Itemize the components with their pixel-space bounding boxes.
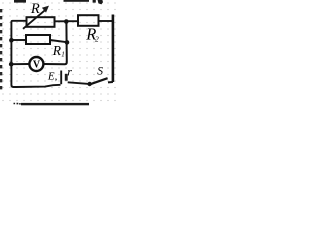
switch blade [90,78,108,84]
wire: left rail to R1 [11,39,26,41]
wire: right rail [112,15,115,83]
svg-text:S: S [97,65,103,77]
junction dot at vertical branch [65,40,70,45]
wire: battery to switch [68,82,89,84]
svg-text:E,: E, [47,71,58,83]
svg-text:V: V [33,60,41,71]
wire: R2 to right rail [99,20,113,22]
battery long plate [60,71,62,85]
wire: rheostat to node A [55,20,67,22]
svg-text:2: 2 [95,34,99,43]
cropped text bar top-left [14,0,26,3]
node A junction dot [64,19,69,24]
cropped text bar top-middle [64,0,90,2]
resistor R2 box (top right) [78,15,99,26]
rheostat arrowhead [42,6,49,13]
svg-text:r: r [67,65,72,79]
cropped dashed line at left image edge [0,9,2,93]
battery short thick plate [65,74,68,81]
cropped text blobs top-right [93,0,103,4]
junction dot on left rail at voltmeter branch [9,62,14,67]
wire: R1 to vertical branch [50,40,67,42]
wire: bottom from left corner to battery [16,85,61,87]
svg-text:1: 1 [61,51,64,59]
switch fixed contact foot [108,81,113,83]
wire: left rail with top-left corner [11,21,26,87]
switch moving contact dot [87,82,91,86]
resistor R1 box (middle) [26,35,50,44]
junction dot on left rail at R1 branch [9,38,14,43]
rheostat arrow shaft [23,10,45,29]
wire: voltmeter to left rail [11,63,29,65]
voltmeter V [29,57,43,71]
rheostat R box [27,17,55,27]
cropped thick rule at bottom [14,103,21,105]
wire: node A to R2 [66,20,78,22]
svg-text:R: R [30,1,40,17]
wire: vertical branch from node A down to voltmeter wire [44,22,67,65]
